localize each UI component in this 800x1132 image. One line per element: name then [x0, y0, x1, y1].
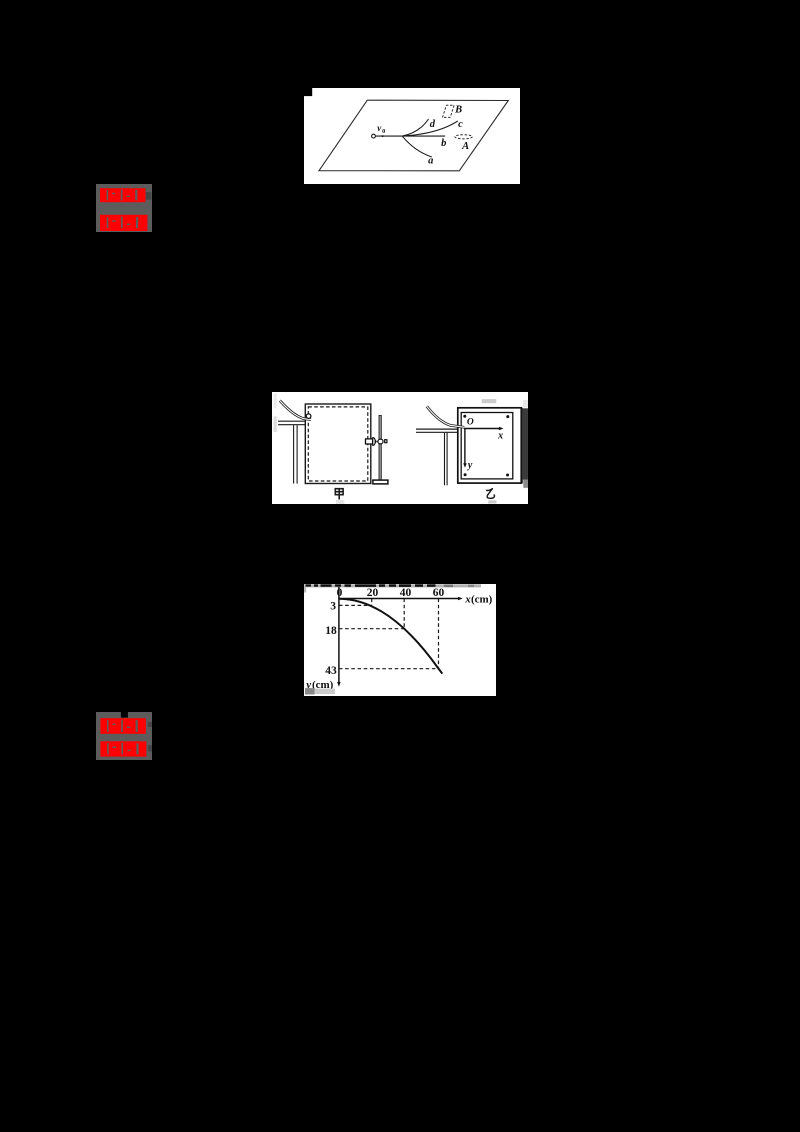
yi: x axis [464, 427, 500, 429]
jia: table top lines [278, 420, 305, 422]
jia: stand base [373, 480, 388, 484]
trajectory b [402, 135, 445, 137]
trajectory a [402, 136, 431, 157]
yi: pushpins [463, 414, 466, 417]
yi: gray patch below strip [523, 479, 528, 487]
plane parallelogram [319, 100, 508, 171]
svg-text:y: y [467, 460, 473, 471]
trajectory curve [339, 599, 442, 674]
jia: clamp ellipse on rod [378, 439, 383, 444]
svg-text:c: c [458, 119, 463, 130]
black remnant dashes [306, 584, 436, 587]
svg-text:O: O [467, 417, 474, 427]
bottom-left gray patches [305, 688, 315, 694]
figure 3: x-y graph [304, 584, 496, 696]
svg-text:A: A [461, 141, 469, 152]
dashed region A [455, 134, 472, 138]
answer-marker block 2 (red on gray with notch) [96, 712, 152, 760]
y axis [338, 587, 340, 684]
jia: clamp knob [372, 437, 374, 445]
yi: dark side strip [522, 408, 527, 479]
notch black corner [304, 88, 312, 96]
trajectory d [402, 119, 428, 136]
faint gray streaks left edge [273, 393, 276, 408]
x axis [339, 597, 459, 599]
yi: table leg [443, 432, 445, 484]
jia: clamp bow-tie [375, 439, 378, 443]
jia label (drawn CJK) [335, 488, 343, 499]
svg-text:3: 3 [330, 600, 336, 612]
yi: light patch top right [523, 400, 528, 407]
yi label (drawn CJK) [486, 488, 494, 498]
dashed guide lines [339, 598, 439, 668]
trajectory c [402, 121, 457, 136]
svg-text:40: 40 [400, 587, 412, 599]
yi: gray smudge above board [481, 399, 495, 403]
jia: ramp (double line) [279, 400, 310, 419]
yi: inner rect [461, 412, 513, 478]
yi: ramp (double line) [426, 406, 463, 427]
svg-text:B: B [454, 104, 462, 115]
svg-text:x: x [497, 430, 503, 441]
svg-text:d: d [429, 119, 435, 130]
svg-text:b: b [441, 138, 446, 149]
jia: clamp end square [384, 439, 386, 442]
jia: clamp rect [365, 439, 372, 444]
axis numbers [325, 587, 444, 677]
velocity dot [381, 135, 383, 137]
yi: y axis [464, 428, 466, 464]
svg-text:20: 20 [367, 587, 379, 599]
jia: ball [306, 413, 311, 418]
svg-text:a: a [428, 155, 433, 166]
jia: dashed inner rectangle [308, 407, 367, 481]
svg-text:43: 43 [325, 665, 337, 677]
jia: table leg [292, 425, 294, 483]
dashed region B [442, 105, 454, 117]
jia: stand rod [379, 415, 381, 480]
svg-text:60: 60 [433, 587, 445, 599]
svg-text:18: 18 [325, 625, 337, 637]
answer-marker block 1 (red 【答案】/【解析】 on gray) [96, 184, 152, 232]
svg-text:0: 0 [382, 128, 385, 135]
launch circle [371, 134, 375, 138]
yi: right thick edge [520, 407, 522, 483]
yi: table top lines [416, 428, 457, 430]
main line [375, 135, 402, 137]
svg-text:(cm): (cm) [471, 593, 493, 605]
figure 2: experiment setups jia and yi [272, 392, 528, 504]
top gray remnant band [304, 584, 481, 587]
yi: board outer rect [457, 407, 520, 482]
figure 1: inclined plane with trajectories [304, 88, 520, 184]
svg-text:0: 0 [337, 587, 343, 599]
jia: board rectangle [305, 404, 370, 483]
